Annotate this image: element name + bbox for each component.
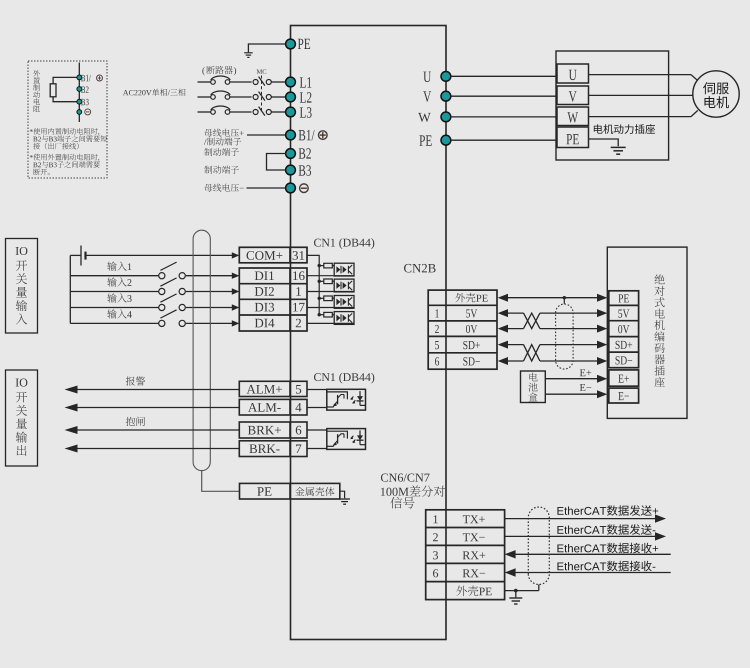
wire V to motor bbox=[589, 94, 694, 96]
label signal bbox=[390, 497, 414, 509]
resistor opto 4 bbox=[319, 312, 334, 317]
encoder pins PE..SD- bbox=[609, 291, 639, 368]
wire TX- bbox=[505, 532, 666, 540]
jumper B2-B3 bbox=[267, 154, 286, 171]
twisted pair SD+/SD- bbox=[498, 341, 608, 365]
external braking resistor dashed box bbox=[28, 61, 107, 178]
shield of EtherCAT cable (dotted capsule) bbox=[528, 507, 549, 584]
wire E+ bbox=[545, 375, 607, 383]
wire socket PE to ground bbox=[589, 139, 619, 146]
CN6 table bbox=[426, 510, 505, 600]
note internal braking resistor bbox=[30, 128, 107, 149]
wire ALM+ to opto bbox=[307, 390, 327, 392]
wire U to motor bbox=[589, 75, 698, 81]
shield of CN1 cable bbox=[193, 230, 210, 470]
label CN1 (DB44) output bbox=[314, 373, 374, 384]
resistor opto 1 bbox=[319, 263, 334, 268]
wire/arrow ALM- bbox=[65, 404, 240, 412]
cell BRK- 7 bbox=[239, 441, 307, 457]
wire 输入2 bbox=[70, 291, 232, 293]
label motor power socket bbox=[594, 124, 655, 134]
terminal L1 bbox=[286, 77, 312, 88]
wire E- bbox=[545, 390, 607, 398]
wire 输入1 bbox=[70, 275, 232, 277]
contactor MC pole L1 bbox=[253, 77, 271, 86]
junction node shell PE bbox=[514, 589, 518, 593]
ground (PE metal shell) bbox=[339, 499, 350, 504]
IO switch output box bbox=[6, 370, 38, 466]
wire COM+ to opto bus bbox=[307, 255, 319, 314]
wire BRK- to opto bbox=[307, 448, 327, 450]
cells DI1-DI4 bbox=[239, 268, 307, 331]
wire to minus terminal bbox=[247, 187, 286, 189]
switch 输入2 bbox=[159, 278, 186, 295]
wire to ground (EtherCAT) bbox=[515, 591, 517, 598]
socket pin U bbox=[557, 64, 589, 83]
twisted pair 5V/0V bbox=[498, 309, 608, 333]
cell ALM+ 5 bbox=[239, 381, 307, 396]
servo drive block outline bbox=[291, 26, 447, 640]
wire U to socket bbox=[450, 75, 557, 77]
wire DI1 return bbox=[307, 275, 354, 277]
opto-coupler output ALM bbox=[327, 389, 366, 410]
label EtherCAT send+ bbox=[557, 505, 658, 516]
IO switch input box bbox=[6, 239, 38, 334]
junction node opto 1 bbox=[318, 264, 321, 267]
label 100M differential pair bbox=[381, 486, 445, 497]
label (breaker) bbox=[202, 66, 236, 75]
junction node opto 4 bbox=[318, 313, 321, 316]
absolute encoder socket box bbox=[607, 247, 687, 418]
label 输入2 bbox=[107, 277, 131, 286]
socket pin PE bbox=[557, 127, 589, 148]
wire RX- bbox=[505, 568, 671, 576]
label E- bbox=[580, 384, 592, 391]
encoder pin E+ bbox=[609, 370, 639, 386]
switch 输入4 bbox=[159, 310, 186, 327]
wire phase L3 bbox=[198, 111, 286, 113]
label AC220V single/three phase bbox=[123, 89, 186, 96]
terminal B2 bbox=[286, 148, 311, 158]
opto-coupler input 2 bbox=[334, 279, 354, 292]
label alarm bbox=[126, 376, 145, 385]
label brake terminal B2 bbox=[204, 148, 239, 156]
wire 输入4 bbox=[70, 322, 232, 324]
cell COM+ 31 bbox=[239, 247, 307, 262]
arrow into 输入1 bbox=[232, 273, 240, 279]
wire resistor to B3 bbox=[53, 97, 79, 102]
cell ALM- 4 bbox=[239, 399, 307, 415]
terminal minus bbox=[286, 183, 309, 193]
circuit breaker pole L1 bbox=[211, 76, 231, 84]
opto-coupler output BRK bbox=[327, 429, 366, 450]
wire phase L1 bbox=[198, 81, 286, 83]
node minus (box) bbox=[77, 109, 91, 115]
wire W to motor bbox=[589, 110, 698, 116]
encoder pin E- bbox=[609, 388, 639, 403]
shield tap to PE wire bbox=[563, 296, 566, 304]
label brake terminal B3 bbox=[204, 166, 239, 174]
cell BRK+ 6 bbox=[239, 422, 307, 438]
wire shell PE bbox=[505, 585, 539, 591]
contactor linkage dashed line bbox=[261, 76, 263, 111]
label EtherCAT send- bbox=[557, 524, 655, 535]
label E+ bbox=[580, 369, 592, 376]
opto-coupler input 3 bbox=[334, 296, 354, 309]
node B3 (box) bbox=[77, 99, 89, 106]
contactor MC pole L3 bbox=[253, 107, 271, 116]
wire/arrow BRK- bbox=[65, 445, 240, 453]
node B1 (box) bbox=[77, 75, 103, 81]
terminal PE (motor) bbox=[419, 135, 557, 145]
socket pin V bbox=[557, 86, 589, 105]
label brake bbox=[126, 417, 145, 426]
junction node opto 2 bbox=[318, 280, 321, 283]
wire DI3 return bbox=[307, 307, 354, 309]
wire phase L2 bbox=[198, 96, 286, 98]
terminal V bbox=[423, 91, 557, 102]
label bus voltage- bbox=[204, 184, 243, 192]
label CN6/CN7 bbox=[381, 474, 430, 482]
wire TX+ bbox=[505, 514, 666, 522]
wire PE row to ground bbox=[340, 491, 345, 498]
terminal L3 bbox=[286, 107, 312, 118]
node B2 (box) bbox=[77, 86, 89, 92]
opto-coupler input 1 bbox=[334, 263, 354, 276]
junction node opto 3 bbox=[318, 297, 321, 300]
ground (top left) bbox=[244, 53, 253, 58]
terminal L2 bbox=[286, 92, 312, 103]
circuit breaker pole L3 bbox=[211, 106, 231, 114]
servo motor circle bbox=[693, 71, 739, 117]
wire RX+ bbox=[505, 550, 671, 558]
note external braking resistor bbox=[30, 154, 100, 175]
switch 输入3 bbox=[159, 294, 186, 311]
battery (input common) bbox=[70, 246, 232, 266]
wire DI4 return bbox=[307, 322, 354, 324]
shield of encoder cable (dashed ellipse) bbox=[556, 304, 574, 369]
wire DI2 return bbox=[307, 291, 354, 293]
terminal PE bbox=[286, 39, 311, 49]
wire/arrow ALM+ bbox=[65, 386, 240, 394]
label bus voltage+ / brake terminal bbox=[204, 129, 244, 146]
contactor MC pole L2 bbox=[253, 92, 271, 101]
label absolute motor encoder socket (vertical) bbox=[654, 274, 664, 387]
terminal U bbox=[423, 72, 557, 83]
battery box bbox=[521, 371, 546, 403]
circuit breaker pole L2 bbox=[211, 91, 231, 99]
arrow into 输入4 bbox=[232, 320, 240, 326]
resistor opto 2 bbox=[319, 279, 334, 284]
switch 输入1 bbox=[159, 262, 186, 279]
bus line inside dashed box bbox=[78, 63, 80, 123]
cell PE metal shell bbox=[240, 483, 340, 499]
label 输入1 bbox=[107, 262, 131, 271]
label 输入4 bbox=[107, 309, 132, 318]
wire 输入3 bbox=[70, 307, 232, 309]
arrow into 输入2 bbox=[232, 288, 240, 294]
arrow into COM+ bbox=[232, 252, 240, 258]
CN2B table bbox=[428, 290, 497, 369]
ground (motor socket) bbox=[611, 147, 626, 154]
terminal B1/+ bbox=[286, 130, 328, 141]
label EtherCAT receive+ bbox=[557, 543, 658, 554]
wire BRK+ to opto bbox=[307, 429, 327, 431]
wire shield to PE box bbox=[202, 471, 240, 492]
label EtherCAT receive- bbox=[557, 561, 655, 572]
wire/arrow BRK+ bbox=[65, 426, 240, 434]
socket pin W bbox=[557, 107, 589, 126]
opto-coupler input 4 bbox=[334, 312, 354, 325]
wire ALM- to opto bbox=[307, 407, 327, 409]
label CN1 (DB44) input bbox=[314, 238, 374, 249]
resistor opto 3 bbox=[319, 296, 334, 301]
wire to B1 bbox=[247, 134, 286, 136]
label 输入3 bbox=[107, 293, 131, 302]
ground (EtherCAT) bbox=[509, 598, 522, 604]
label MC bbox=[257, 69, 267, 73]
arrow into 输入3 bbox=[232, 304, 240, 310]
wire resistor to B1 bbox=[53, 77, 79, 83]
motor power socket box bbox=[556, 51, 669, 160]
terminal W bbox=[418, 112, 557, 122]
terminal B3 bbox=[286, 165, 311, 176]
wire PE (encoder) double arrow bbox=[498, 294, 608, 302]
resistor R-brake bbox=[50, 84, 56, 97]
wire PE to ground bbox=[248, 44, 285, 52]
input bus line bbox=[69, 255, 71, 323]
label external braking resistor (vertical) bbox=[33, 70, 40, 112]
label CN2B bbox=[404, 264, 436, 273]
